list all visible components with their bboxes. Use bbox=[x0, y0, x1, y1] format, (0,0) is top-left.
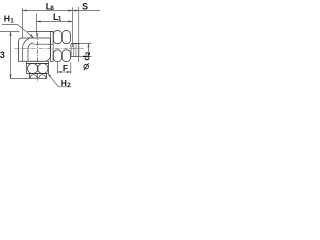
svg-text:2: 2 bbox=[67, 82, 71, 89]
node phi d2 arrows bbox=[88, 44, 90, 57]
washer between body and nut bbox=[51, 32, 54, 62]
tube stub end bbox=[71, 44, 79, 57]
svg-text:S: S bbox=[82, 1, 88, 11]
svg-text:H: H bbox=[4, 14, 10, 24]
tube stub thread line 2 bbox=[75, 44, 77, 57]
wire dimension line L8 / S bbox=[23, 7, 101, 62]
bore wall vertical right bbox=[27, 49, 29, 62]
tube stub thread line 1 bbox=[73, 44, 75, 57]
lower hex bbox=[30, 74, 47, 79]
label L8 bbox=[0, 1, 92, 88]
leg nut body bbox=[27, 64, 49, 74]
leg nut lobe left bbox=[27, 63, 37, 73]
node L8 arrow right bbox=[75, 9, 79, 11]
wire H2 leader bbox=[48, 74, 71, 86]
wire H1 leader bbox=[2, 25, 33, 37]
top hex flat bbox=[28, 31, 54, 33]
node F arrows bbox=[58, 71, 71, 73]
bore top line bbox=[34, 43, 54, 45]
svg-text:1: 1 bbox=[10, 17, 14, 24]
svg-text:H: H bbox=[61, 78, 67, 88]
node L1 arrows bbox=[37, 20, 73, 22]
wire overall-height dimension (label clipped at edge) bbox=[0, 32, 30, 79]
wire dimension phi d2 bbox=[73, 44, 92, 57]
nut lobe bottom-left bbox=[53, 50, 61, 62]
node centerline vertical bbox=[37, 33, 39, 82]
wire dimension line L1 bbox=[37, 14, 73, 37]
node H1 leader arrow bbox=[30, 34, 34, 37]
node H2 leader arrow bbox=[48, 74, 51, 77]
leg nut lobe right bbox=[38, 63, 48, 73]
label phi symbol bbox=[84, 63, 89, 70]
node L8 arrow left bbox=[23, 9, 79, 11]
leg flange washer bbox=[27, 61, 49, 63]
svg-text:3: 3 bbox=[0, 50, 5, 60]
lower hex arc right bbox=[39, 75, 46, 79]
nut lobe bottom-right bbox=[62, 50, 70, 62]
elbow bend outer arc bbox=[23, 38, 34, 49]
svg-text:F: F bbox=[63, 63, 68, 73]
svg-text:2: 2 bbox=[85, 51, 92, 55]
node centerline horizontal bbox=[15, 48, 85, 50]
node height dim arrows bbox=[9, 32, 11, 79]
svg-text:1: 1 bbox=[58, 16, 62, 23]
label phi d2 rotated bbox=[81, 51, 92, 60]
bore wall vertical left bbox=[22, 49, 24, 62]
node S arrow at 72.5 bbox=[68, 9, 72, 11]
elbow bend inner arc bbox=[28, 43, 34, 49]
nut lobe top-left bbox=[53, 31, 61, 44]
elbow body outline bbox=[19, 38, 51, 61]
wire dimension F bbox=[58, 62, 71, 73]
nut lobe top-right bbox=[62, 31, 70, 44]
lower hex arc left bbox=[30, 75, 37, 79]
